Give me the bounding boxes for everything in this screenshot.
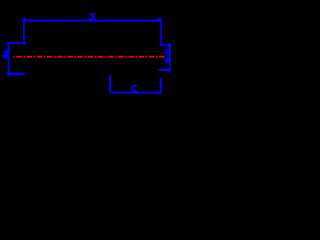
centerline (red dash-dot axis) [13, 56, 164, 58]
corner block top-left of d1 [7, 42, 10, 45]
dimension c line (bottom) [109, 92, 161, 94]
corner block bottom-left of d1 [7, 72, 10, 75]
label of dimension c (glyph "c") [132, 85, 137, 91]
dimension d1 top tick (left) [7, 42, 23, 44]
dimension d2 top tick (right) [160, 44, 171, 46]
label of dimension d2 lower glyph [165, 57, 169, 63]
arrow block right of dimension L [159, 18, 163, 21]
dimension c right extension line [160, 78, 162, 94]
dimension d1 vertical line [8, 42, 10, 74]
dimension d1 bottom tick [7, 73, 24, 75]
junction dot node A [22, 41, 26, 45]
extension line right (top dim down to right dim) [160, 21, 162, 45]
dimension c left extension line [109, 76, 111, 94]
dimension d2 bottom tick [159, 69, 171, 71]
arrow block left of dimension L [22, 18, 25, 21]
label of dimension d2 upper glyph [165, 49, 169, 55]
corner block bottom-right of d2 [167, 68, 170, 71]
corner block top-right of d2 [168, 44, 171, 47]
dimension d2 vertical line [169, 45, 171, 72]
tip blob of dimension c left extension [109, 75, 111, 77]
extension line left (top dim to part corner) [23, 21, 25, 42]
label of dimension d1 [2, 49, 8, 59]
dimension line L (top overall length) [23, 20, 162, 22]
label of dimension L (glyph "1") [89, 13, 95, 20]
